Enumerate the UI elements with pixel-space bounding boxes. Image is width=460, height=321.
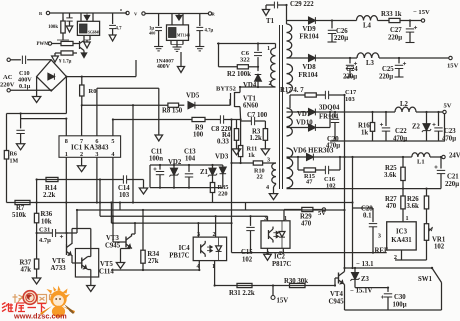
svg-text:VT3: VT3	[106, 235, 119, 242]
svg-text:Z1: Z1	[200, 169, 209, 176]
svg-text:VD7: VD7	[297, 111, 311, 118]
svg-text:R16: R16	[358, 123, 370, 130]
svg-text:VD9: VD9	[302, 26, 316, 33]
svg-text:PWM: PWM	[37, 42, 50, 47]
svg-text:4: 4	[266, 184, 269, 191]
svg-text:R29: R29	[300, 214, 312, 221]
svg-text:1k: 1k	[361, 130, 368, 137]
svg-text:C28: C28	[361, 206, 373, 213]
svg-text:C22: C22	[395, 128, 407, 135]
svg-text:R7: R7	[16, 205, 25, 212]
svg-text:C7 100: C7 100	[247, 112, 268, 119]
svg-text:R37: R37	[20, 260, 32, 267]
svg-text:R36: R36	[41, 211, 53, 218]
svg-text:C14: C14	[118, 185, 130, 192]
svg-text:C25: C25	[382, 66, 394, 73]
svg-text:− 13.1: − 13.1	[356, 261, 374, 268]
svg-text:R0: R0	[89, 88, 97, 95]
svg-text:¥ 1.7μ: ¥ 1.7μ	[59, 60, 72, 65]
svg-text:4: 4	[111, 151, 114, 158]
svg-text:220μ: 220μ	[388, 35, 402, 42]
svg-text:103: 103	[345, 96, 356, 103]
svg-text:C24: C24	[346, 66, 358, 73]
svg-text:Z3: Z3	[361, 276, 370, 283]
svg-text:VD5: VD5	[186, 93, 200, 100]
svg-text:VT4: VT4	[330, 291, 343, 298]
svg-text:VT5: VT5	[100, 261, 113, 268]
svg-text:100k: 100k	[48, 25, 58, 30]
svg-text:www.dzsc.com: www.dzsc.com	[13, 312, 67, 321]
svg-text:P817C: P817C	[272, 261, 291, 268]
svg-text:2.2k: 2.2k	[43, 192, 55, 199]
svg-text:220μ: 220μ	[343, 74, 357, 81]
svg-text:8: 8	[65, 138, 68, 145]
svg-text:o: o	[120, 7, 122, 12]
svg-text:3: 3	[267, 157, 270, 164]
svg-text:L3: L3	[366, 60, 375, 67]
svg-text:KA431: KA431	[391, 237, 412, 244]
svg-text:R27: R27	[385, 196, 397, 203]
svg-text:0.33: 0.33	[217, 139, 229, 146]
svg-text:100: 100	[193, 132, 204, 139]
svg-text:1: 1	[267, 45, 270, 52]
svg-text:322: 322	[240, 57, 250, 64]
svg-text:470: 470	[301, 221, 312, 228]
svg-text:470: 470	[386, 203, 397, 210]
svg-text:REF: REF	[375, 248, 389, 255]
svg-text:R14: R14	[45, 185, 57, 192]
svg-text:10k: 10k	[41, 219, 52, 226]
svg-text:510k: 510k	[12, 212, 26, 219]
svg-text:FR104: FR104	[298, 72, 318, 79]
svg-text:3: 3	[264, 215, 267, 222]
svg-text:C21: C21	[447, 174, 459, 181]
svg-text:15V: 15V	[447, 63, 459, 70]
svg-text:T1: T1	[266, 18, 275, 25]
svg-text:VD8: VD8	[302, 64, 316, 71]
svg-text:C11: C11	[151, 149, 163, 156]
svg-text:100μ: 100μ	[393, 302, 407, 309]
svg-text:VD6 HER303: VD6 HER303	[293, 148, 334, 155]
svg-text:1M: 1M	[10, 159, 19, 165]
svg-text:L2: L2	[400, 101, 409, 108]
svg-text:220V: 220V	[0, 82, 15, 89]
svg-text:3DQ04: 3DQ04	[319, 105, 340, 112]
svg-text:27k: 27k	[148, 258, 159, 265]
svg-text:R8 150: R8 150	[162, 108, 183, 115]
svg-text:C29 222: C29 222	[290, 1, 314, 8]
svg-text:− 15.1V: − 15.1V	[350, 288, 372, 295]
svg-text:2: 2	[279, 250, 282, 257]
svg-text:SG6848: SG6848	[88, 31, 100, 35]
svg-text:5V: 5V	[318, 210, 326, 217]
svg-text:47k: 47k	[21, 267, 32, 274]
svg-text:SW1: SW1	[418, 276, 433, 283]
svg-text:R17 4. 7: R17 4. 7	[280, 87, 304, 94]
svg-text:220: 220	[218, 191, 228, 198]
svg-text:220μ: 220μ	[445, 181, 459, 188]
svg-text:104: 104	[185, 156, 196, 163]
svg-text:1: 1	[65, 151, 68, 158]
svg-text:400: 400	[149, 31, 155, 36]
svg-text:0.1: 0.1	[363, 213, 372, 220]
svg-text:3: 3	[378, 233, 381, 240]
svg-text:4.7μ: 4.7μ	[39, 237, 51, 244]
svg-text:1k: 1k	[248, 152, 255, 159]
svg-text:C13: C13	[184, 149, 196, 156]
svg-text:− 15V: − 15V	[413, 9, 430, 16]
svg-text:102: 102	[242, 257, 253, 264]
svg-text:3.6k: 3.6k	[407, 203, 419, 210]
svg-text:VD4: VD4	[243, 82, 257, 89]
svg-text:BYT52: BYT52	[216, 86, 236, 93]
svg-text:IC1 KA3843: IC1 KA3843	[71, 144, 109, 152]
svg-text:R33 1k: R33 1k	[381, 11, 402, 18]
svg-text:400V: 400V	[157, 64, 171, 70]
svg-text:0.1μ: 0.1μ	[19, 83, 31, 90]
svg-text:R30 30k: R30 30k	[284, 278, 308, 285]
svg-text:C945: C945	[329, 299, 345, 306]
svg-text:R2 100k: R2 100k	[227, 71, 251, 78]
svg-text:R26: R26	[407, 196, 419, 203]
svg-text:IC4: IC4	[179, 245, 191, 252]
svg-text:22: 22	[257, 174, 263, 181]
svg-text:6: 6	[95, 138, 98, 145]
svg-text:R34: R34	[147, 251, 159, 258]
svg-text:Z2: Z2	[412, 124, 421, 131]
svg-text:R6: R6	[10, 152, 17, 158]
svg-text:VR1: VR1	[432, 237, 446, 244]
svg-text:FR104: FR104	[299, 34, 319, 41]
svg-text:4.7μ: 4.7μ	[205, 29, 214, 34]
svg-text:L1: L1	[417, 159, 425, 166]
svg-text:C23: C23	[444, 128, 456, 135]
svg-text:24V: 24V	[449, 153, 460, 160]
svg-text:102: 102	[434, 244, 445, 251]
svg-text:PB17C: PB17C	[169, 253, 189, 260]
svg-text:47: 47	[306, 179, 313, 186]
svg-text:C945: C945	[105, 243, 121, 250]
svg-text:C27: C27	[390, 27, 402, 34]
svg-text:C15: C15	[241, 249, 253, 256]
svg-text:AC: AC	[3, 74, 13, 81]
svg-text:1.2k: 1.2k	[250, 135, 262, 142]
svg-text:220μ: 220μ	[379, 74, 393, 81]
svg-text:R9: R9	[195, 125, 204, 132]
svg-text:VT1: VT1	[243, 96, 256, 103]
svg-text:2: 2	[80, 151, 83, 158]
svg-text:103: 103	[119, 192, 130, 199]
svg-text:3: 3	[95, 151, 98, 158]
svg-text:A733: A733	[51, 265, 67, 272]
svg-text:1: 1	[406, 215, 409, 222]
svg-text:MT1144: MT1144	[177, 34, 190, 38]
svg-text:IC3: IC3	[396, 229, 408, 236]
svg-text:5: 5	[111, 138, 114, 145]
svg-text:VD3: VD3	[215, 154, 229, 161]
svg-text:3.6k: 3.6k	[384, 172, 396, 179]
svg-text:C26: C26	[336, 28, 348, 35]
svg-text:7: 7	[80, 138, 83, 145]
svg-text:R31 2.2k: R31 2.2k	[229, 290, 255, 297]
svg-text:R25: R25	[385, 165, 397, 172]
svg-text:VD10: VD10	[296, 120, 313, 127]
svg-text:C30: C30	[394, 294, 406, 301]
svg-text:4.7: 4.7	[116, 27, 123, 32]
svg-text:100n: 100n	[149, 156, 163, 163]
svg-text:220μ: 220μ	[334, 35, 348, 42]
svg-text:2: 2	[394, 254, 397, 261]
svg-text:VT6: VT6	[52, 258, 65, 265]
svg-text:15V: 15V	[277, 298, 289, 305]
svg-text:5V: 5V	[444, 103, 452, 110]
svg-text:C17: C17	[345, 89, 357, 96]
svg-text:L4: L4	[363, 23, 372, 30]
svg-text:6N60: 6N60	[243, 103, 259, 110]
svg-text:C31: C31	[39, 227, 50, 234]
